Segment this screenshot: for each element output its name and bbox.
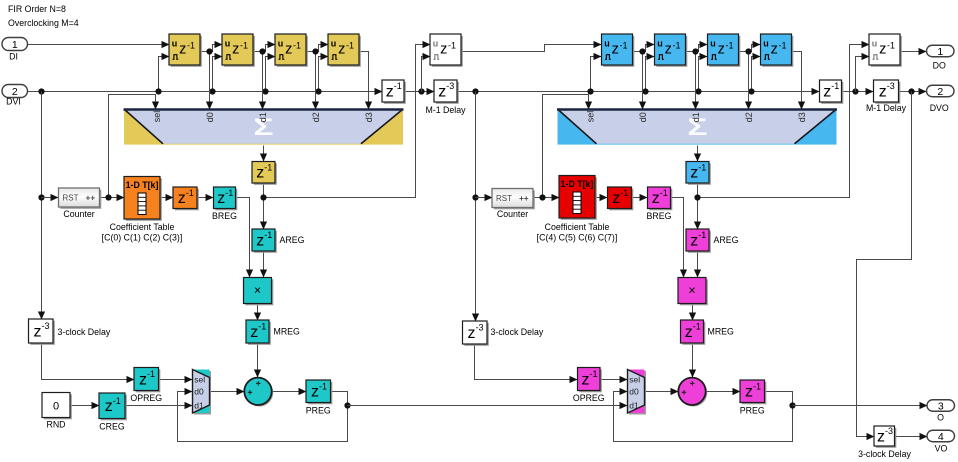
svg-text:z: z (665, 42, 672, 58)
svg-text:z: z (582, 371, 590, 388)
svg-text:z: z (217, 190, 225, 207)
svg-text:1: 1 (937, 46, 943, 58)
svg-text:d2: d2 (744, 112, 754, 122)
svg-text:z: z (879, 83, 887, 100)
svg-text:u: u (872, 38, 878, 48)
svg-text:0: 0 (53, 401, 59, 413)
svg-text:Counter: Counter (497, 209, 528, 219)
svg-text:z: z (386, 83, 394, 100)
svg-text:4: 4 (938, 431, 944, 443)
svg-text:z: z (612, 190, 620, 207)
svg-text:z: z (690, 232, 698, 249)
svg-text:u: u (433, 38, 439, 48)
svg-text:-3: -3 (42, 321, 50, 331)
svg-text:3-clock Delay: 3-clock Delay (58, 327, 111, 337)
svg-text:-1: -1 (619, 41, 627, 51)
svg-text:-1: -1 (258, 322, 266, 332)
svg-text:z: z (34, 323, 42, 340)
svg-text:-1: -1 (448, 41, 456, 51)
svg-text:1-D T[k]: 1-D T[k] (561, 179, 594, 189)
svg-text:z: z (745, 384, 753, 401)
svg-text:-1: -1 (264, 162, 272, 172)
svg-text:z: z (178, 190, 186, 207)
svg-text:DVI: DVI (6, 97, 21, 107)
svg-text:Counter: Counter (63, 209, 94, 219)
svg-text:3-clock Delay: 3-clock Delay (491, 327, 544, 337)
svg-text:PREG: PREG (740, 406, 765, 416)
svg-text:PREG: PREG (306, 406, 331, 416)
svg-text:z: z (877, 428, 885, 445)
svg-text:[C(4) C(5) C(6) C(7)]: [C(4) C(5) C(6) C(7)] (537, 233, 618, 243)
svg-text:d1: d1 (691, 112, 701, 122)
svg-text:RND: RND (46, 420, 65, 430)
svg-text:d0: d0 (629, 387, 639, 397)
svg-text:-1: -1 (887, 41, 895, 51)
svg-text:VO: VO (935, 444, 948, 454)
svg-text:DVO: DVO (930, 103, 949, 113)
svg-text:MREG: MREG (708, 327, 735, 337)
svg-text:-1: -1 (187, 41, 195, 51)
svg-text:-1: -1 (620, 188, 628, 198)
svg-text:z: z (879, 42, 886, 58)
svg-text:1-D T[k]: 1-D T[k] (126, 180, 159, 190)
svg-text:×: × (688, 284, 695, 298)
svg-text:RST: RST (496, 194, 512, 203)
svg-text:AREG: AREG (280, 235, 305, 245)
svg-text:-1: -1 (264, 230, 272, 240)
svg-text:u: u (225, 38, 231, 48)
svg-text:1: 1 (12, 39, 18, 51)
svg-text:z: z (139, 371, 147, 388)
svg-text:O: O (937, 413, 944, 423)
svg-text:-1: -1 (698, 230, 706, 240)
svg-text:d3: d3 (797, 112, 807, 122)
svg-text:d0: d0 (194, 387, 204, 397)
svg-text:-1: -1 (660, 188, 668, 198)
svg-text:z: z (718, 42, 725, 58)
svg-text:z: z (468, 325, 476, 342)
svg-text:d1: d1 (629, 401, 639, 411)
svg-text:z: z (685, 324, 693, 341)
svg-text:-1: -1 (319, 381, 327, 391)
svg-text:sel: sel (629, 374, 640, 384)
svg-text:u: u (331, 38, 337, 48)
svg-text:BREG: BREG (647, 211, 672, 221)
svg-text:OPREG: OPREG (130, 393, 162, 403)
svg-text:3: 3 (938, 400, 944, 412)
svg-text:-1: -1 (725, 41, 733, 51)
svg-text:RST: RST (63, 194, 79, 203)
svg-text:d1: d1 (258, 112, 268, 122)
svg-text:-1: -1 (394, 81, 402, 91)
svg-text:[C(0) C(1) C(2) C(3)]: [C(0) C(1) C(2) C(3)] (102, 233, 183, 243)
svg-text:-1: -1 (693, 322, 701, 332)
svg-text:++: ++ (86, 194, 96, 203)
svg-text:-1: -1 (672, 41, 680, 51)
svg-text:z: z (771, 42, 778, 58)
svg-text:FIR Order N=8: FIR Order N=8 (8, 4, 66, 14)
svg-text:++: ++ (519, 194, 529, 203)
svg-text:-1: -1 (293, 41, 301, 51)
svg-text:-3: -3 (887, 81, 895, 91)
svg-text:z: z (285, 42, 292, 58)
svg-text:z: z (438, 83, 446, 100)
svg-text:-1: -1 (225, 188, 233, 198)
svg-text:u: u (172, 38, 178, 48)
svg-text:sel: sel (586, 111, 596, 123)
svg-text:d1: d1 (194, 401, 204, 411)
svg-text:3-clock Delay: 3-clock Delay (858, 449, 911, 459)
svg-text:u: u (278, 38, 284, 48)
svg-text:z: z (105, 398, 113, 415)
svg-text:M-1 Delay: M-1 Delay (866, 103, 907, 113)
svg-text:-3: -3 (446, 81, 454, 91)
svg-text:-1: -1 (753, 381, 761, 391)
svg-text:-1: -1 (113, 396, 121, 406)
svg-text:-1: -1 (831, 81, 839, 91)
svg-text:-1: -1 (147, 369, 155, 379)
svg-text:CREG: CREG (99, 422, 125, 432)
svg-text:z: z (652, 190, 660, 207)
svg-text:u: u (657, 38, 663, 48)
svg-text:M-1 Delay: M-1 Delay (425, 105, 466, 115)
svg-text:u: u (604, 38, 610, 48)
svg-text:z: z (690, 165, 698, 182)
svg-text:-3: -3 (885, 426, 893, 436)
svg-text:-1: -1 (346, 41, 354, 51)
svg-text:u: u (710, 38, 716, 48)
svg-text:u: u (763, 38, 769, 48)
svg-text:z: z (250, 324, 258, 341)
svg-text:DO: DO (933, 61, 946, 71)
svg-text:z: z (232, 42, 239, 58)
svg-text:-3: -3 (476, 323, 484, 333)
svg-text:-1: -1 (698, 162, 706, 172)
svg-text:d2: d2 (311, 112, 321, 122)
svg-text:z: z (823, 83, 831, 100)
svg-text:DI: DI (9, 52, 18, 62)
svg-text:MREG: MREG (274, 327, 301, 337)
svg-text:-1: -1 (590, 369, 598, 379)
svg-text:-1: -1 (240, 41, 248, 51)
svg-text:z: z (440, 42, 447, 58)
svg-text:sel: sel (152, 111, 162, 123)
svg-text:z: z (179, 42, 186, 58)
svg-text:Overclocking M=4: Overclocking M=4 (8, 18, 79, 28)
svg-text:z: z (256, 165, 264, 182)
svg-text:Coefficient Table: Coefficient Table (545, 222, 610, 232)
svg-text:2: 2 (937, 86, 943, 98)
svg-text:z: z (256, 232, 264, 249)
svg-text:OPREG: OPREG (573, 393, 605, 403)
svg-text:d0: d0 (638, 112, 648, 122)
svg-text:z: z (311, 384, 319, 401)
svg-text:sel: sel (194, 374, 205, 384)
svg-text:-1: -1 (186, 188, 194, 198)
svg-text:×: × (254, 284, 261, 298)
svg-text:-1: -1 (778, 41, 786, 51)
svg-text:d0: d0 (205, 112, 215, 122)
svg-text:d3: d3 (364, 112, 374, 122)
svg-text:BREG: BREG (212, 211, 237, 221)
svg-text:Coefficient Table: Coefficient Table (110, 222, 175, 232)
svg-text:z: z (612, 42, 619, 58)
svg-text:z: z (338, 42, 345, 58)
svg-text:AREG: AREG (714, 235, 739, 245)
